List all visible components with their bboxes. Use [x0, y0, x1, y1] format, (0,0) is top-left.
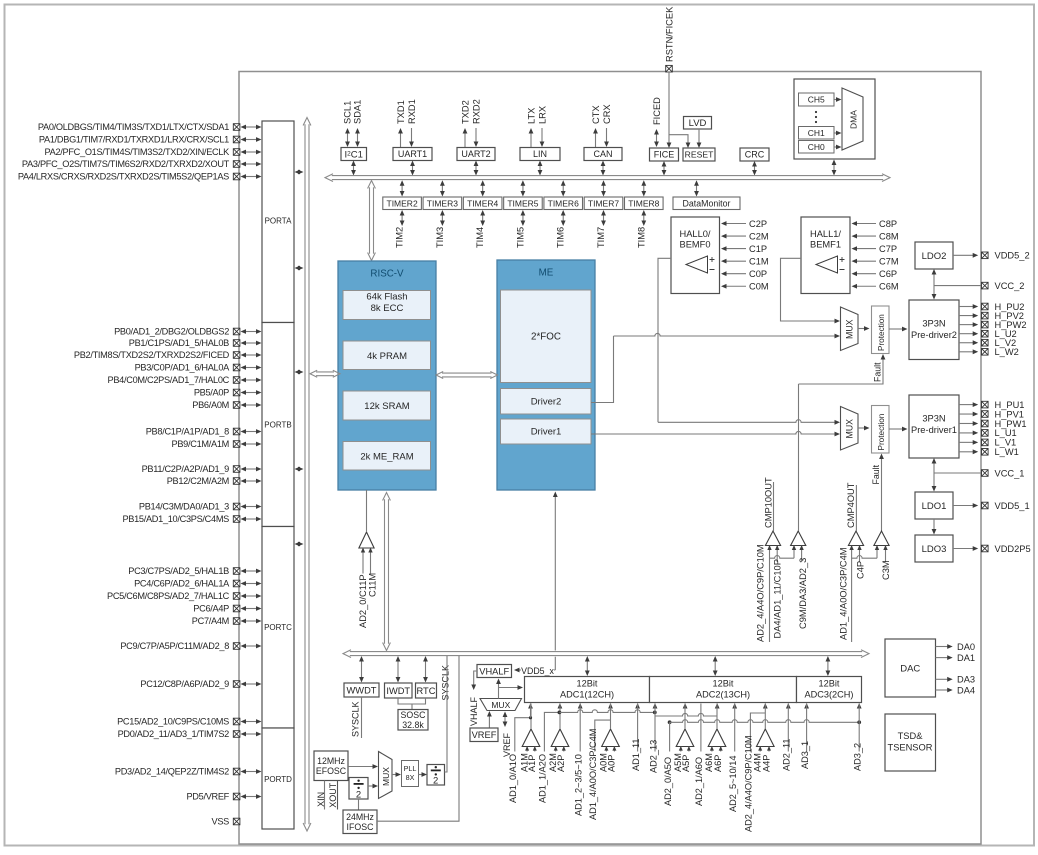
adc input arrow	[804, 703, 809, 709]
svg-text:AD2_4/A4O/C9P/C10M: AD2_4/A4O/C9P/C10M	[756, 544, 766, 642]
adc ADC2	[650, 677, 797, 703]
svg-text:PB1/C1PS/AD1_5/HAL0B: PB1/C1PS/AD1_5/HAL0B	[129, 338, 229, 348]
peripheral CAN	[584, 148, 622, 161]
pin L_U2	[959, 333, 975, 335]
wire CMP10 crosslink	[770, 556, 795, 559]
svg-text:RESET: RESET	[685, 150, 714, 160]
net AD1_11	[637, 704, 639, 752]
vertical bus to RISC-V	[369, 187, 371, 253]
svg-text:PLL: PLL	[404, 764, 417, 773]
svg-text:HALL1/: HALL1/	[810, 229, 841, 239]
svg-text:AD3_2: AD3_2	[853, 743, 863, 771]
svg-text:PB5/A0P: PB5/A0P	[194, 388, 229, 398]
adc ADC3	[797, 677, 862, 703]
svg-text:VDD5_2: VDD5_2	[995, 251, 1030, 261]
wire bus to ADC1	[586, 660, 588, 672]
svg-text:PA3/PFC_O2S/TIM7S/TIM6S2/RXD2/: PA3/PFC_O2S/TIM7S/TIM6S2/RXD2/TXRXD2/XOU…	[22, 159, 230, 169]
wire MUX1 to Protection1	[858, 427, 866, 429]
dma channel CH0	[799, 141, 835, 154]
svg-text:WWDT: WWDT	[347, 685, 377, 695]
svg-text:UART1: UART1	[398, 149, 427, 159]
svg-text:AD1_4/A0O/C3P/C4M: AD1_4/A0O/C3P/C4M	[588, 729, 598, 820]
svg-text:AD1_4/A0O/C3P/C4M: AD1_4/A0O/C3P/C4M	[839, 548, 849, 641]
wire CH1 to DMA	[834, 132, 839, 134]
adc input arrow	[715, 703, 720, 709]
comparator C11	[359, 532, 374, 548]
svg-text:TIM7: TIM7	[596, 227, 606, 248]
chip boundary	[239, 72, 981, 845]
svg-text:LDO3: LDO3	[922, 544, 947, 555]
mux analog MUX	[480, 699, 522, 711]
svg-text:C2P: C2P	[749, 219, 767, 229]
main peripheral bus	[332, 175, 883, 177]
signal C2M	[725, 235, 746, 237]
wire UART2 to bus	[475, 165, 477, 172]
wire TIMER3 to bus	[441, 184, 443, 192]
pin VCC_2	[934, 285, 982, 287]
svg-text:PB15/AD1_10/C3PS/C4MS: PB15/AD1_10/C3PS/C4MS	[122, 514, 229, 524]
pin H_PU1	[959, 404, 975, 406]
svg-text:CH5: CH5	[808, 95, 825, 105]
wire TIMER4 to bus	[482, 184, 484, 192]
svg-text:PB0/AD1_2/DBG2/OLDBGS2: PB0/AD1_2/DBG2/OLDBGS2	[114, 327, 229, 337]
peripheral RESET	[683, 148, 715, 161]
block ME	[497, 260, 595, 490]
wire RSTN to FICE	[668, 72, 670, 145]
block LDO1	[915, 492, 953, 519]
pin L_W1	[959, 451, 975, 453]
svg-text:TIMER6: TIMER6	[548, 198, 579, 208]
block RTC	[416, 683, 437, 698]
svg-text:CTX: CTX	[591, 105, 601, 124]
svg-text:32.8k: 32.8k	[402, 720, 424, 730]
bus ports to RISC-V	[316, 371, 334, 373]
svg-text:TIM4: TIM4	[475, 227, 485, 248]
svg-text:C6M: C6M	[879, 282, 899, 292]
svg-text:AD1_11: AD1_11	[631, 738, 641, 771]
block 2*FOC	[501, 290, 592, 383]
svg-text:TIMER5: TIMER5	[507, 198, 538, 208]
svg-text:64k Flash: 64k Flash	[366, 292, 407, 303]
signal C2P	[725, 223, 746, 225]
svg-text:VSS: VSS	[212, 817, 230, 827]
rail R2	[670, 720, 860, 723]
comparator symbol HALL1	[816, 256, 838, 273]
wire IWDT RTC to SOSC	[398, 698, 426, 704]
wire PORTB to bus	[299, 371, 300, 373]
rail R1a	[559, 710, 654, 713]
wire Driver1 to MUX1	[591, 431, 837, 434]
wire TIMER7 to bus	[603, 184, 605, 192]
peripheral FICE	[650, 148, 679, 161]
svg-text:ADC1(12CH): ADC1(12CH)	[560, 690, 614, 700]
mux MUX2	[841, 307, 859, 351]
input amplifier A0	[602, 729, 620, 747]
crystal pin XIN	[324, 781, 326, 810]
svg-text:TIM3: TIM3	[435, 227, 445, 248]
net AD2_11	[787, 704, 789, 752]
memory 12k SRAM	[343, 391, 431, 420]
svg-text:12MHz: 12MHz	[317, 756, 345, 766]
net AD3_1	[806, 704, 808, 752]
input amplifier A1	[522, 729, 540, 747]
wire CMP4 crosslink	[852, 556, 877, 559]
svg-text:BEMF0: BEMF0	[680, 240, 711, 250]
svg-text:DMA: DMA	[849, 110, 859, 129]
svg-text:8X: 8X	[406, 773, 415, 782]
peripheral TIMER4	[463, 197, 502, 210]
svg-text:AD1_0/A1O: AD1_0/A1O	[508, 754, 518, 803]
wire LDO2 to pre-driver2	[933, 273, 935, 296]
block DMA container	[794, 79, 875, 159]
port block PORTB	[262, 323, 294, 527]
signal TIM6	[562, 214, 564, 222]
wire fault to Protection2	[799, 358, 884, 385]
svg-text:C3M: C3M	[881, 560, 891, 580]
block Protection2	[872, 306, 890, 354]
wire CH0 to DMA	[834, 146, 839, 148]
net AD1_1/A2O	[544, 712, 559, 751]
wire CMP10 input AD2_4 left	[769, 546, 771, 643]
adc input arrow	[653, 703, 658, 709]
input amplifier A5	[676, 729, 694, 747]
svg-text:TSD&: TSD&	[898, 731, 924, 741]
svg-text:PA4/LRXS/CRXS/RXD2S/TXRXD2S/TI: PA4/LRXS/CRXS/RXD2S/TXRXD2S/TIM5S2/QEP1A…	[18, 172, 229, 182]
input amplifier A2	[551, 729, 569, 747]
dma mux trapezoid	[842, 88, 863, 150]
svg-text:PC9/C7P/A5P/C11M/AD2_8: PC9/C7P/A5P/C11M/AD2_8	[120, 641, 229, 651]
svg-text:C0M: C0M	[749, 282, 769, 292]
block Driver2	[501, 389, 592, 415]
svg-text:C0P: C0P	[749, 269, 767, 279]
svg-text:TIM6: TIM6	[556, 227, 566, 248]
adc input arrow	[608, 703, 613, 709]
svg-text:PD5/VREF: PD5/VREF	[186, 792, 229, 802]
svg-text:CMP10OUT: CMP10OUT	[764, 477, 774, 528]
svg-text:XOUT: XOUT	[328, 782, 338, 808]
svg-text:AD1_2~3/5~10: AD1_2~3/5~10	[574, 754, 584, 816]
signal TIM5	[522, 214, 524, 222]
svg-text:8k ECC: 8k ECC	[371, 303, 404, 314]
wire CMP10 input DA4/AD1_11/C10P	[776, 546, 778, 563]
block 12MHz EFOSC	[314, 751, 348, 781]
signal C7M	[856, 260, 877, 262]
svg-text:SYSCLK: SYSCLK	[350, 701, 360, 737]
comparator CMP4 D fault	[874, 531, 889, 546]
wire RSTN branch to RESET	[669, 135, 688, 145]
svg-text:VHALF: VHALF	[469, 696, 479, 726]
signal C8P	[856, 223, 877, 225]
signal C1P	[725, 248, 746, 250]
svg-text:PB9/C1M/A1M: PB9/C1M/A1M	[172, 439, 229, 449]
dma channel dots	[815, 111, 817, 113]
signal TIM8	[643, 214, 645, 222]
svg-text:C2M: C2M	[749, 231, 769, 241]
svg-text:MUX: MUX	[845, 319, 855, 339]
net AD2_13	[654, 704, 656, 752]
svg-text:EFOSC: EFOSC	[316, 766, 347, 776]
pin L_V1	[959, 441, 975, 443]
pin VDD2P5	[953, 548, 975, 550]
wire PLL to div2b	[419, 774, 425, 776]
svg-text:AD2_4/A4O/C9P/C10M: AD2_4/A4O/C9P/C10M	[744, 735, 754, 832]
net AD1_4/A0O/C3P/C4M	[595, 720, 611, 751]
wire bus to ADC3	[827, 660, 829, 672]
svg-text:Protection: Protection	[877, 413, 886, 450]
peripheral TIMER8	[624, 197, 663, 210]
adc input arrow	[786, 703, 791, 709]
svg-text:DA4/AD1_11/C10P: DA4/AD1_11/C10P	[773, 559, 783, 638]
svg-text:PB2/TIM8S/TXD2S2/TXRXD2S2/FICE: PB2/TIM8S/TXD2S2/TXRXD2S2/FICED	[74, 350, 230, 360]
svg-text:TIMER2: TIMER2	[387, 198, 418, 208]
svg-text:RXD1: RXD1	[407, 99, 417, 124]
svg-text:AD2_1/A6O: AD2_1/A6O	[694, 757, 704, 806]
peripheral DataMonitor	[673, 197, 740, 210]
svg-text:XIN: XIN	[316, 792, 326, 807]
pin H_PU2	[959, 306, 975, 308]
block LDO3	[915, 535, 953, 562]
svg-text:VDD5_1: VDD5_1	[995, 501, 1030, 511]
svg-text:Driver2: Driver2	[531, 397, 562, 408]
signal C7P	[856, 248, 877, 250]
comparator CMP10 A	[765, 531, 780, 546]
peripheral TIMER7	[584, 197, 623, 210]
net AD2_5~10/14	[734, 704, 736, 752]
peripheral TIMER3	[423, 197, 462, 210]
wire CRC to bus	[754, 165, 756, 172]
wire MUX branch to ADC1	[499, 687, 521, 689]
svg-text:FICE: FICE	[654, 150, 675, 160]
svg-text:PB8/C1P/A1P/AD1_8: PB8/C1P/A1P/AD1_8	[146, 427, 229, 437]
pin H_PW2	[959, 324, 975, 326]
adc ADC1	[525, 677, 650, 703]
svg-text:AD3_1: AD3_1	[800, 741, 810, 769]
svg-text:PC7/A4M: PC7/A4M	[192, 616, 229, 626]
comparator CMP4 C	[848, 531, 863, 546]
svg-text:AD2_13: AD2_13	[648, 740, 658, 773]
signal C1M	[725, 260, 746, 262]
wire FICE to bus	[663, 165, 665, 172]
pin DA1	[936, 657, 950, 659]
lower system bus	[350, 651, 862, 653]
peripheral TIMER2	[383, 197, 422, 210]
wire TIMER8 to bus	[643, 184, 645, 192]
memory 4k PRAM	[343, 341, 431, 370]
svg-text:AD2_0/C11P: AD2_0/C11P	[358, 574, 368, 628]
wire CMP10 input C9M/DA3/AD2_3	[801, 546, 803, 563]
svg-text:PC3/C7PS/AD2_5/HAL1B: PC3/C7PS/AD2_5/HAL1B	[128, 566, 229, 576]
block divider /2 first	[349, 778, 368, 800]
wire MUX VREF double	[504, 716, 506, 724]
svg-text:L_W2: L_W2	[995, 347, 1019, 357]
svg-text:C1P: C1P	[749, 244, 767, 254]
svg-text:RSTN/FICEK: RSTN/FICEK	[665, 6, 675, 62]
signal TIM7	[603, 214, 605, 222]
block TSD TSENSOR	[885, 714, 936, 771]
port block PORTD	[262, 728, 294, 829]
net AD2_0/A5O	[668, 720, 672, 724]
wire CMP4 input AD1_4 left	[851, 546, 853, 643]
svg-text:TXD2: TXD2	[461, 100, 471, 124]
svg-text:DAC: DAC	[900, 663, 920, 674]
peripheral TIMER6	[544, 197, 583, 210]
peripheral LIN	[520, 148, 560, 161]
svg-text:A5P: A5P	[681, 755, 691, 772]
wire C11 output	[366, 490, 368, 532]
block Protection1	[872, 406, 890, 454]
svg-text:PC6/A4P: PC6/A4P	[193, 604, 229, 614]
mux MUX1	[841, 407, 859, 451]
svg-text:PORTA: PORTA	[265, 217, 292, 226]
svg-text:CAN: CAN	[593, 149, 612, 159]
wire MUX to PLL	[392, 774, 398, 776]
dma channel CH5	[799, 93, 835, 106]
net AD2_4/A4O/C9P/C10M	[750, 713, 765, 752]
svg-text:MUX: MUX	[381, 767, 391, 786]
adc input arrow	[683, 703, 688, 709]
svg-text:UART2: UART2	[461, 149, 490, 159]
svg-text:PORTD: PORTD	[264, 775, 292, 784]
svg-text:TIMER7: TIMER7	[588, 198, 619, 208]
svg-text:MUX: MUX	[491, 700, 510, 710]
svg-text:TIM8: TIM8	[636, 227, 646, 248]
svg-text:TIM5: TIM5	[515, 227, 525, 248]
svg-text:VREF: VREF	[472, 730, 497, 740]
wire LVD to RESET	[698, 129, 700, 145]
block 3P3N Pre-driver2	[909, 300, 959, 360]
pin H_PW1	[959, 422, 975, 424]
pin L_U1	[959, 432, 975, 434]
svg-text:PB14/C3M/DA0/AD1_3: PB14/C3M/DA0/AD1_3	[139, 502, 229, 512]
svg-text:PB12/C2M/A2M: PB12/C2M/A2M	[167, 476, 229, 486]
wire Protection2 to pre-driver2	[889, 328, 905, 330]
wire PORTC to bus	[299, 543, 300, 545]
wire WWDT to bus	[361, 660, 363, 679]
wire pre-driver1 to LDO1	[933, 462, 935, 488]
bus RISC-V bottom	[384, 499, 386, 643]
svg-text:RXD2: RXD2	[471, 99, 481, 124]
svg-text:SYSCLK: SYSCLK	[440, 665, 450, 701]
adc input arrow	[528, 703, 533, 709]
dma channel CH1	[799, 127, 835, 140]
pin H_PV2	[959, 315, 975, 317]
block HALL1/BEMF1	[801, 217, 850, 294]
svg-text:Pre-driver1: Pre-driver1	[911, 425, 957, 435]
svg-text:RISC-V: RISC-V	[370, 269, 404, 280]
comparator symbol HALL0	[686, 256, 708, 273]
svg-text:12Bit: 12Bit	[819, 679, 840, 689]
adc input arrow	[558, 703, 563, 709]
svg-text:ME: ME	[539, 268, 554, 279]
net SYSCLK stub WWDT	[361, 697, 363, 738]
wire fault to Protection1	[881, 457, 883, 531]
wire C11 input C11M	[370, 548, 372, 574]
net AD1_0/A1O	[515, 718, 531, 752]
svg-text:PA0/OLDBGS/TIM4/TIM3S/TXD1/LTX: PA0/OLDBGS/TIM4/TIM3S/TXD1/LTX/CTX/SDA1	[38, 122, 229, 132]
wire HALL1 output to MUX2	[781, 258, 838, 321]
svg-text:C11M: C11M	[368, 573, 378, 597]
block LVD	[684, 117, 712, 130]
wire TIMER6 to bus	[562, 184, 564, 192]
svg-text:VCC_1: VCC_1	[995, 468, 1025, 478]
svg-text:L_W1: L_W1	[995, 447, 1019, 457]
block VREF	[470, 728, 498, 742]
svg-text:SOSC: SOSC	[401, 710, 427, 720]
pin VCC_1	[934, 472, 982, 474]
svg-text:C8M: C8M	[879, 231, 899, 241]
wire TIMER5 to bus	[522, 184, 524, 192]
svg-text:TIM2: TIM2	[395, 227, 405, 248]
wire EFOSC to MUX	[348, 766, 375, 768]
svg-text:12k SRAM: 12k SRAM	[364, 401, 409, 412]
wire PORTA to bus	[299, 171, 300, 173]
svg-text:DA4: DA4	[957, 685, 975, 695]
pin DA0	[936, 646, 950, 648]
block 24MHz IFOSC	[343, 810, 377, 834]
wire C11 input AD2_0/C11P	[362, 548, 364, 574]
block SOSC 32.8k	[398, 710, 428, 731]
svg-text:AD2_5~10/14: AD2_5~10/14	[728, 756, 738, 812]
svg-text:VREF: VREF	[502, 732, 512, 757]
wire IFOSC to bus	[377, 656, 459, 821]
net CMP4OUT stub	[855, 485, 857, 531]
wire CMP10B output	[798, 384, 800, 531]
svg-text:DA3: DA3	[957, 675, 975, 685]
svg-text:A2P: A2P	[556, 755, 566, 772]
svg-text:VCC_2: VCC_2	[995, 281, 1025, 291]
svg-text:2*FOC: 2*FOC	[531, 332, 561, 343]
port block PORTC	[262, 527, 294, 729]
pin L_W2	[959, 351, 975, 353]
svg-text:AD1_1/A2O: AD1_1/A2O	[538, 754, 548, 803]
signal TIM4	[482, 214, 484, 222]
wire CMP4 input C4P	[859, 546, 861, 563]
wire div2 to MUX	[368, 785, 375, 787]
wire RTC to bus	[425, 660, 427, 679]
svg-text:2k ME_RAM: 2k ME_RAM	[360, 451, 413, 462]
svg-text:LRX: LRX	[537, 106, 547, 124]
wire CAN to bus	[602, 165, 604, 172]
port block PORTA	[262, 121, 294, 323]
svg-text:LIN: LIN	[533, 149, 547, 159]
adc input arrow	[732, 703, 737, 709]
net CMP10OUT stub	[773, 482, 775, 531]
pin DA3	[936, 678, 950, 680]
wire DMA to bus	[833, 164, 835, 172]
block VHALF	[477, 665, 512, 678]
block LDO2	[915, 242, 953, 269]
peripheral TIMER5	[504, 197, 543, 210]
svg-text:Protection: Protection	[877, 314, 886, 351]
svg-text:SCL1: SCL1	[343, 101, 353, 124]
wire LDO1 to LDO3	[933, 519, 935, 531]
peripheral CRC	[740, 148, 769, 161]
net AD3_2	[858, 704, 860, 752]
svg-text:TIMER4: TIMER4	[467, 198, 498, 208]
svg-text:VHALF: VHALF	[479, 666, 509, 676]
comparator CMP10 B fault	[791, 531, 806, 546]
svg-text:2: 2	[356, 790, 361, 801]
svg-text:PA2/PFC_O1S/TIM4S/TIM3S2/TXD2/: PA2/PFC_O1S/TIM4S/TIM3S2/TXD2/XIN/ECLK	[45, 147, 231, 157]
svg-text:IWDT: IWDT	[386, 686, 410, 696]
block divider /2 second	[427, 765, 445, 786]
svg-text:TIMER3: TIMER3	[427, 198, 458, 208]
svg-text:A6P: A6P	[713, 755, 723, 772]
wire HALL0 output to MUX1	[658, 420, 837, 423]
svg-text:24MHz: 24MHz	[346, 812, 374, 822]
svg-text:12Bit: 12Bit	[713, 679, 734, 689]
pin L_V2	[959, 342, 975, 344]
